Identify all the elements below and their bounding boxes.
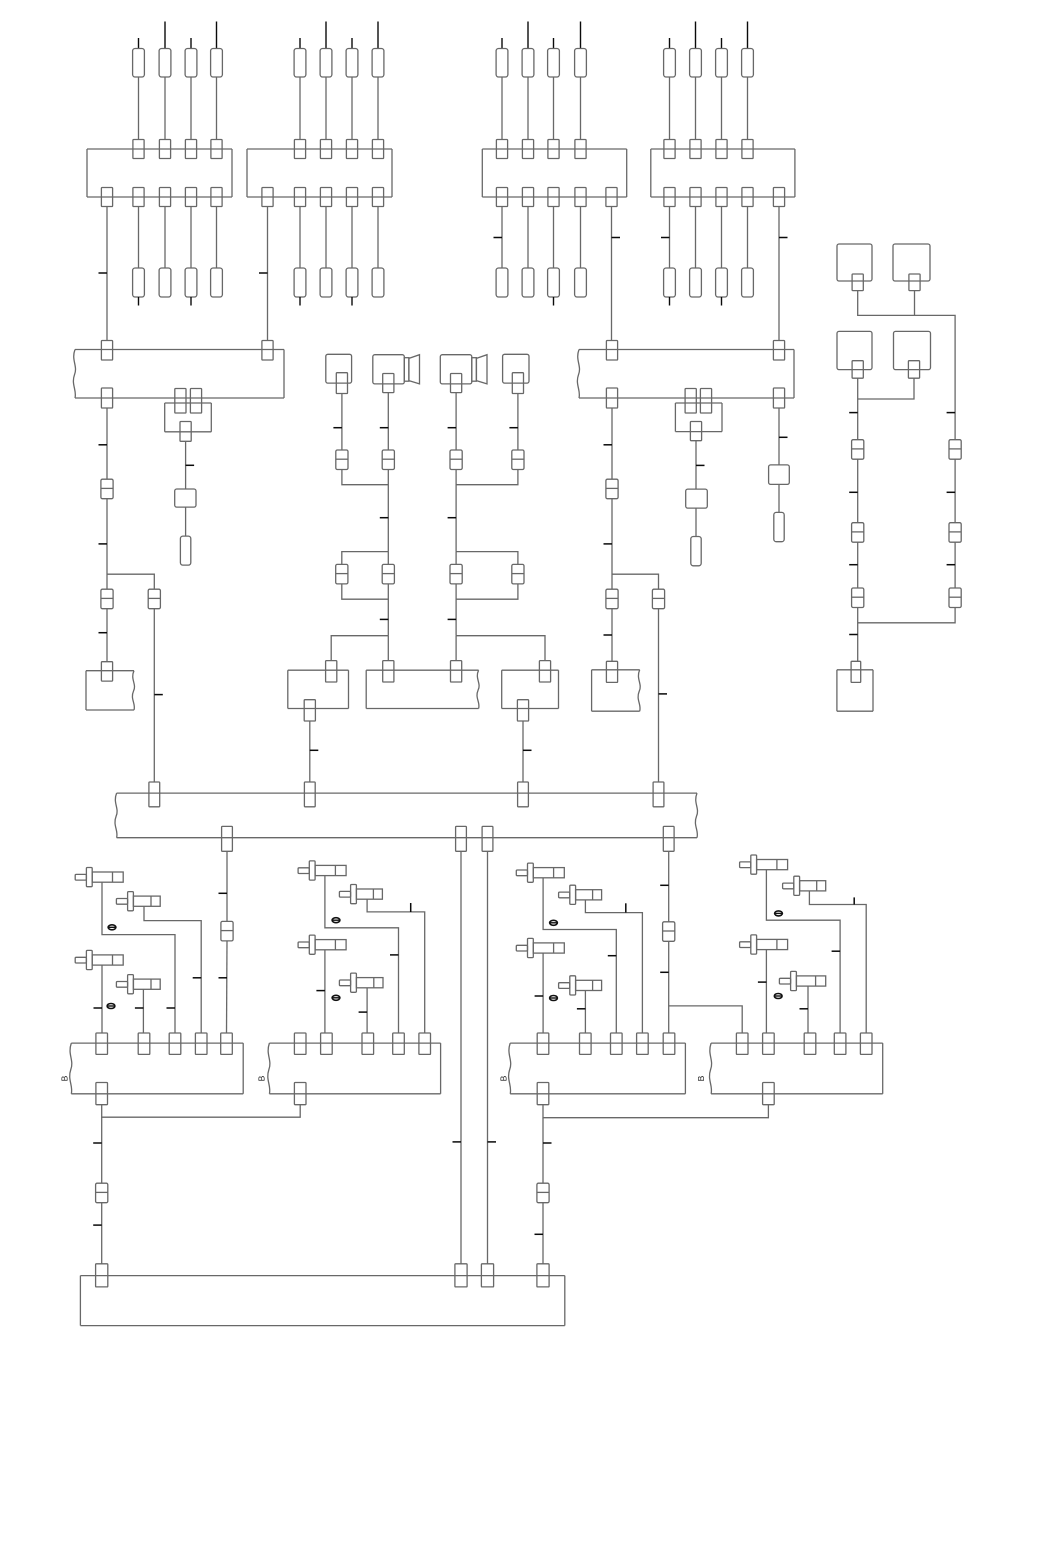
inline connector C3 — [336, 564, 348, 584]
wire — [102, 882, 175, 1033]
wire — [721, 77, 723, 140]
pin GND 3 — [481, 1264, 493, 1287]
wire — [351, 207, 353, 269]
component LS2 (speaker/motor with horn) — [440, 355, 487, 384]
pin of connector X3 (bottom) — [606, 188, 617, 207]
switch S9 — [516, 863, 564, 882]
switch S10 — [559, 885, 602, 904]
wire main feed from X4 — [778, 207, 780, 341]
inline connector C12 — [606, 479, 618, 499]
wire branch — [612, 574, 659, 589]
pin of connector X4 (bottom) — [773, 188, 784, 207]
wire tick — [448, 618, 457, 620]
pin of connector X2 (bottom) — [320, 188, 331, 207]
pin of connector X4 (bottom) — [690, 188, 701, 207]
wire tick — [608, 955, 617, 957]
wire branch to J1 — [331, 636, 388, 661]
wire — [522, 721, 524, 782]
wire feed stub above fuse F43 — [721, 38, 723, 49]
wire feed stub above fuse F11 — [138, 38, 140, 49]
pin 1 of connector X1 (top) — [133, 140, 144, 159]
wire — [668, 851, 670, 922]
pin of connector X4 (bottom) — [716, 188, 727, 207]
fuse F36 — [522, 268, 534, 297]
fuse F21 — [294, 49, 306, 78]
wire parallel loop left — [342, 552, 389, 565]
switch S12 — [559, 976, 602, 995]
wire — [747, 77, 749, 140]
connector box X7 (torn left) — [509, 1043, 686, 1094]
pin U2 center B — [700, 389, 711, 414]
component E4 (square) — [894, 331, 931, 369]
bus pin bottom 4 — [663, 826, 674, 851]
wire tick — [494, 237, 503, 239]
fuse F41 — [664, 49, 676, 78]
wire tick — [380, 517, 389, 519]
inline connector C11 — [148, 589, 160, 609]
pin X6 bottom — [294, 1083, 306, 1105]
pin J5 bottom — [304, 700, 315, 721]
wire — [765, 950, 767, 1033]
pin J6 top A — [383, 661, 394, 682]
wire — [857, 378, 859, 440]
wire — [695, 207, 697, 269]
ground box E5 — [837, 670, 873, 711]
wire — [455, 584, 457, 636]
wire — [299, 77, 301, 140]
fuse F23 — [346, 49, 358, 78]
wire feed stub above fuse F12 — [164, 22, 166, 49]
pin 3 of X7 — [611, 1033, 623, 1054]
pin U2 bottom-left — [606, 388, 617, 408]
wire tick — [604, 634, 613, 636]
fuse F44 — [742, 49, 754, 78]
wire — [542, 1118, 544, 1184]
pin X5 bottom — [96, 1083, 108, 1105]
pin of connector X1 (bottom) — [185, 188, 196, 207]
inline connector C4 — [382, 564, 394, 584]
wire — [611, 609, 613, 662]
connector box X2 — [247, 149, 392, 197]
pin 1 of X6 — [294, 1033, 306, 1054]
pin GND 1 — [96, 1264, 108, 1287]
component R3 — [769, 465, 790, 485]
wire — [517, 394, 519, 451]
pin J7 bottom — [517, 700, 528, 721]
wire — [954, 542, 956, 588]
wire — [807, 986, 809, 1033]
wire — [658, 609, 660, 782]
component E3 (square) — [837, 331, 872, 369]
wire — [857, 459, 859, 523]
wire tick — [94, 1007, 103, 1009]
inline connector C18 — [949, 440, 961, 460]
wire — [106, 408, 108, 479]
wire branch to X8 pin1 — [669, 1006, 743, 1033]
wire feed stub above fuse F34 — [580, 22, 582, 49]
pin U2 center A — [685, 389, 696, 414]
pin 3 of X6 — [362, 1033, 374, 1054]
wire — [387, 584, 389, 636]
inline connector C23 — [96, 1183, 108, 1203]
switch S1 — [75, 868, 123, 887]
pin E2 — [909, 274, 920, 291]
connector box X6 (torn left) — [268, 1043, 441, 1094]
inline connector C19 — [949, 523, 961, 543]
wire — [695, 441, 697, 489]
pin 4 of connector X4 (top) — [742, 140, 753, 159]
wire — [144, 906, 201, 1033]
wire parallel loop right — [456, 552, 518, 565]
wire — [366, 988, 368, 1033]
pin 3 of connector X3 (top) — [548, 140, 559, 159]
fuse F15 — [133, 268, 145, 297]
pin J6 top B — [451, 661, 462, 682]
wire — [455, 552, 457, 565]
wire tick — [99, 444, 108, 446]
splice label — [550, 920, 558, 925]
wire tick — [577, 1008, 586, 1010]
wire — [387, 393, 389, 450]
pin GND 4 — [537, 1264, 549, 1287]
fuse F24 — [372, 49, 384, 78]
wire — [190, 77, 192, 140]
wire stub below fuse — [190, 297, 192, 306]
fuse F16 — [159, 268, 171, 297]
wire — [858, 291, 955, 440]
wire tick — [453, 1141, 462, 1143]
bus pin bottom 2 — [456, 826, 467, 851]
wire feed stub above fuse F13 — [190, 38, 192, 49]
pin 1 of X5 — [96, 1033, 108, 1054]
wire — [377, 77, 379, 140]
pin 4 of X6 — [393, 1033, 405, 1054]
wire — [778, 484, 780, 512]
fuse F11 — [133, 49, 145, 78]
pin of connector X3 (bottom) — [548, 188, 559, 207]
fuse F43 — [716, 49, 728, 78]
pin LS1 — [383, 374, 394, 393]
inline connector C21 — [221, 921, 233, 941]
switch S14 — [783, 876, 826, 895]
wire — [669, 207, 671, 269]
fuse F38 — [575, 268, 587, 297]
switch S8 — [339, 973, 383, 992]
svg-text:B: B — [257, 1075, 267, 1081]
junction box U1 (left) — [73, 350, 284, 399]
wire — [185, 441, 187, 489]
pin 4 of X8 — [834, 1033, 846, 1054]
wire feed stub above fuse F41 — [669, 38, 671, 49]
ground bus box — [80, 1276, 564, 1326]
pin K1 bottom — [180, 422, 191, 442]
wire main feed from X3 — [611, 207, 613, 341]
fuse F46 — [690, 268, 702, 297]
fuse F45 — [664, 268, 676, 297]
wire branch to J2 — [456, 636, 545, 661]
splice label — [550, 996, 558, 1001]
junction box J3 (torn) — [86, 671, 135, 710]
wire — [914, 291, 916, 316]
inline connector C9 — [101, 479, 113, 499]
inline connector C17 — [852, 588, 864, 608]
wire — [309, 721, 311, 782]
pin 4 of connector X1 (top) — [211, 140, 222, 159]
wire tick — [947, 412, 956, 414]
wire tick — [779, 436, 788, 438]
inline connector C13 — [606, 589, 618, 609]
wire — [324, 950, 326, 1033]
wire — [456, 470, 518, 485]
wire — [138, 77, 140, 140]
inline connector C1 — [336, 450, 348, 470]
fuse F47 — [716, 268, 728, 297]
pin E3 — [852, 361, 863, 379]
wire tick — [849, 634, 858, 636]
junction box J6 (torn) — [366, 670, 479, 708]
wire tick — [259, 272, 268, 274]
wire feed stub above fuse F23 — [351, 38, 353, 49]
switch S3 — [75, 950, 123, 969]
component LS1 (speaker/motor with horn) — [373, 355, 420, 384]
pin 2 of X7 — [580, 1033, 592, 1054]
svg-text:B: B — [60, 1075, 70, 1081]
wire branch — [107, 574, 154, 589]
wire — [216, 207, 218, 269]
pin 2 of X6 — [321, 1033, 333, 1054]
pin 5 of X6 — [419, 1033, 431, 1054]
bus bar box (torn both ends) — [115, 793, 698, 838]
splice label — [107, 1004, 115, 1009]
wire — [106, 499, 108, 590]
wire — [809, 891, 866, 1033]
pin of connector X3 (bottom) — [522, 188, 533, 207]
wire tick — [99, 632, 108, 634]
wire tick — [661, 237, 670, 239]
wire — [669, 77, 671, 140]
connector box X3 — [482, 149, 626, 197]
pin U1 top-left — [101, 341, 112, 361]
inline connector C15 — [852, 440, 864, 460]
fuse F22 — [320, 49, 332, 78]
wire — [487, 851, 489, 1264]
wire stub below fuse — [299, 297, 301, 306]
pin 2 of connector X4 (top) — [690, 140, 701, 159]
wire — [766, 870, 840, 1033]
label B of X6 — [257, 1075, 267, 1081]
pin M2 — [512, 373, 523, 394]
pin 2 of X5 — [138, 1033, 150, 1054]
splice label — [774, 994, 782, 999]
pin of connector X2 (bottom) — [346, 188, 357, 207]
bus pin top 1 — [149, 782, 160, 807]
wire U-link X5-X6 — [102, 1105, 301, 1118]
junction box J4 (torn) — [592, 670, 641, 711]
pin U1 bottom-left — [101, 388, 112, 408]
wire tick — [947, 491, 956, 493]
wire — [142, 989, 144, 1033]
connector box X4 — [651, 149, 795, 197]
component R2 — [686, 489, 708, 508]
wire tick — [604, 543, 613, 545]
pin 2 of connector X1 (top) — [159, 140, 170, 159]
splice label — [108, 925, 116, 930]
pin of connector X3 (bottom) — [496, 188, 507, 207]
component R1 — [175, 489, 196, 507]
wire — [190, 207, 192, 269]
wire tick — [390, 954, 399, 956]
switch S15 — [740, 935, 788, 954]
pin of connector X4 (bottom) — [664, 188, 675, 207]
pin J5 top — [326, 661, 337, 682]
inline connector C10 — [101, 589, 113, 609]
pin 1 of X8 — [736, 1033, 748, 1054]
wire feed stub above fuse F22 — [325, 22, 327, 49]
pin 1 of connector X3 (top) — [496, 140, 507, 159]
wire tick — [186, 464, 195, 466]
pin 1 of X7 — [537, 1033, 549, 1054]
splice label — [332, 918, 340, 923]
wire — [387, 636, 389, 661]
wire tick — [849, 564, 858, 566]
pin 1 of connector X2 (top) — [294, 140, 305, 159]
svg-text:B: B — [696, 1075, 706, 1081]
wire tick — [758, 981, 767, 983]
junction box J5 — [288, 670, 349, 708]
pin U2 bottom-right — [773, 388, 784, 408]
pin X7 bottom — [537, 1083, 549, 1105]
fuse F12 — [159, 49, 171, 78]
pin 4 of connector X2 (top) — [372, 140, 383, 159]
wire join — [858, 608, 955, 623]
pin of connector X2 (bottom) — [372, 188, 383, 207]
wire tick — [219, 892, 228, 894]
wire — [747, 207, 749, 269]
wire — [580, 207, 582, 269]
component M2 (square) — [503, 354, 529, 383]
wire tick — [193, 977, 202, 979]
pin LS2 — [451, 374, 462, 393]
bus pin top 4 — [653, 782, 664, 807]
wire feed stub above fuse F33 — [553, 38, 555, 49]
pin 4 of X5 — [195, 1033, 207, 1054]
wire tick — [947, 564, 956, 566]
wire main feed from X2 — [267, 207, 269, 341]
fuse F33 — [548, 49, 560, 78]
wire feed stub above fuse F42 — [695, 22, 697, 49]
wire tick — [488, 1141, 497, 1143]
fuse F28 — [372, 268, 384, 297]
wire — [668, 941, 670, 1033]
wire stub below fuse — [351, 297, 353, 306]
wire tick — [380, 618, 389, 620]
wire feed stub above fuse F31 — [501, 38, 503, 49]
wire — [542, 953, 544, 1033]
wire — [101, 1203, 103, 1264]
pin 3 of connector X1 (top) — [185, 140, 196, 159]
wire tick — [523, 749, 532, 751]
wire tick — [316, 990, 325, 992]
wire — [185, 507, 187, 536]
pin E1 — [852, 274, 863, 291]
wire tick — [410, 903, 412, 912]
wire main feed from X1 — [106, 207, 108, 341]
wire — [387, 552, 389, 565]
wire — [164, 207, 166, 269]
wire tick — [310, 749, 319, 751]
switch S6 — [339, 885, 382, 904]
wire tick — [448, 427, 457, 429]
fuse F31 — [496, 49, 508, 78]
pin 2 of connector X2 (top) — [320, 140, 331, 159]
inline connector C16 — [852, 523, 864, 543]
pin 3 of connector X4 (top) — [716, 140, 727, 159]
pin of connector X1 (bottom) — [211, 188, 222, 207]
pin 4 of X7 — [637, 1033, 649, 1054]
fuse F13 — [185, 49, 197, 78]
wire — [611, 499, 613, 590]
inline connector C14 — [652, 589, 664, 609]
pin of connector X2 (bottom) — [294, 188, 305, 207]
wire — [553, 77, 555, 140]
switch S5 — [298, 861, 346, 880]
wire — [695, 77, 697, 140]
wire — [527, 207, 529, 269]
wire — [299, 207, 301, 269]
wire — [342, 470, 388, 485]
label B of X5 — [60, 1075, 70, 1081]
component M1 (square) — [326, 354, 352, 383]
bus pin bottom 3 — [482, 826, 493, 851]
wire — [377, 207, 379, 269]
inline connector C5 — [450, 450, 462, 470]
wire tick — [135, 1007, 144, 1009]
pin 2 of connector X3 (top) — [522, 140, 533, 159]
pin 4 of connector X3 (top) — [575, 140, 586, 159]
bus pin top 3 — [518, 782, 529, 807]
wire — [387, 470, 389, 552]
wire tick — [832, 950, 841, 952]
pin 3 of connector X2 (top) — [346, 140, 357, 159]
wire tick — [448, 517, 457, 519]
junction box J7 — [502, 670, 559, 708]
pin E5 top — [851, 661, 861, 682]
bus pin top 2 — [304, 782, 315, 807]
fuse F37 — [548, 268, 560, 297]
wire feed stub above fuse F24 — [377, 22, 379, 49]
wire — [325, 77, 327, 140]
pin K2 bottom — [690, 422, 701, 441]
fuse F26 — [320, 268, 332, 297]
wire feed stub above fuse F44 — [747, 22, 749, 49]
wire — [585, 900, 642, 1033]
splice label — [332, 995, 340, 1000]
wire tick — [154, 694, 163, 696]
bus pin bottom 1 — [222, 826, 233, 851]
pin 2 of X8 — [763, 1033, 775, 1054]
wire — [351, 77, 353, 140]
wire tick — [779, 237, 788, 239]
wire — [164, 77, 166, 140]
wire — [456, 584, 518, 599]
wire — [153, 609, 155, 782]
wire — [226, 851, 228, 921]
switch S11 — [516, 938, 564, 957]
inline connector C24 — [537, 1183, 549, 1203]
pin 5 of X7 — [663, 1033, 675, 1054]
wire — [695, 508, 697, 536]
pin 3 of X8 — [804, 1033, 816, 1054]
